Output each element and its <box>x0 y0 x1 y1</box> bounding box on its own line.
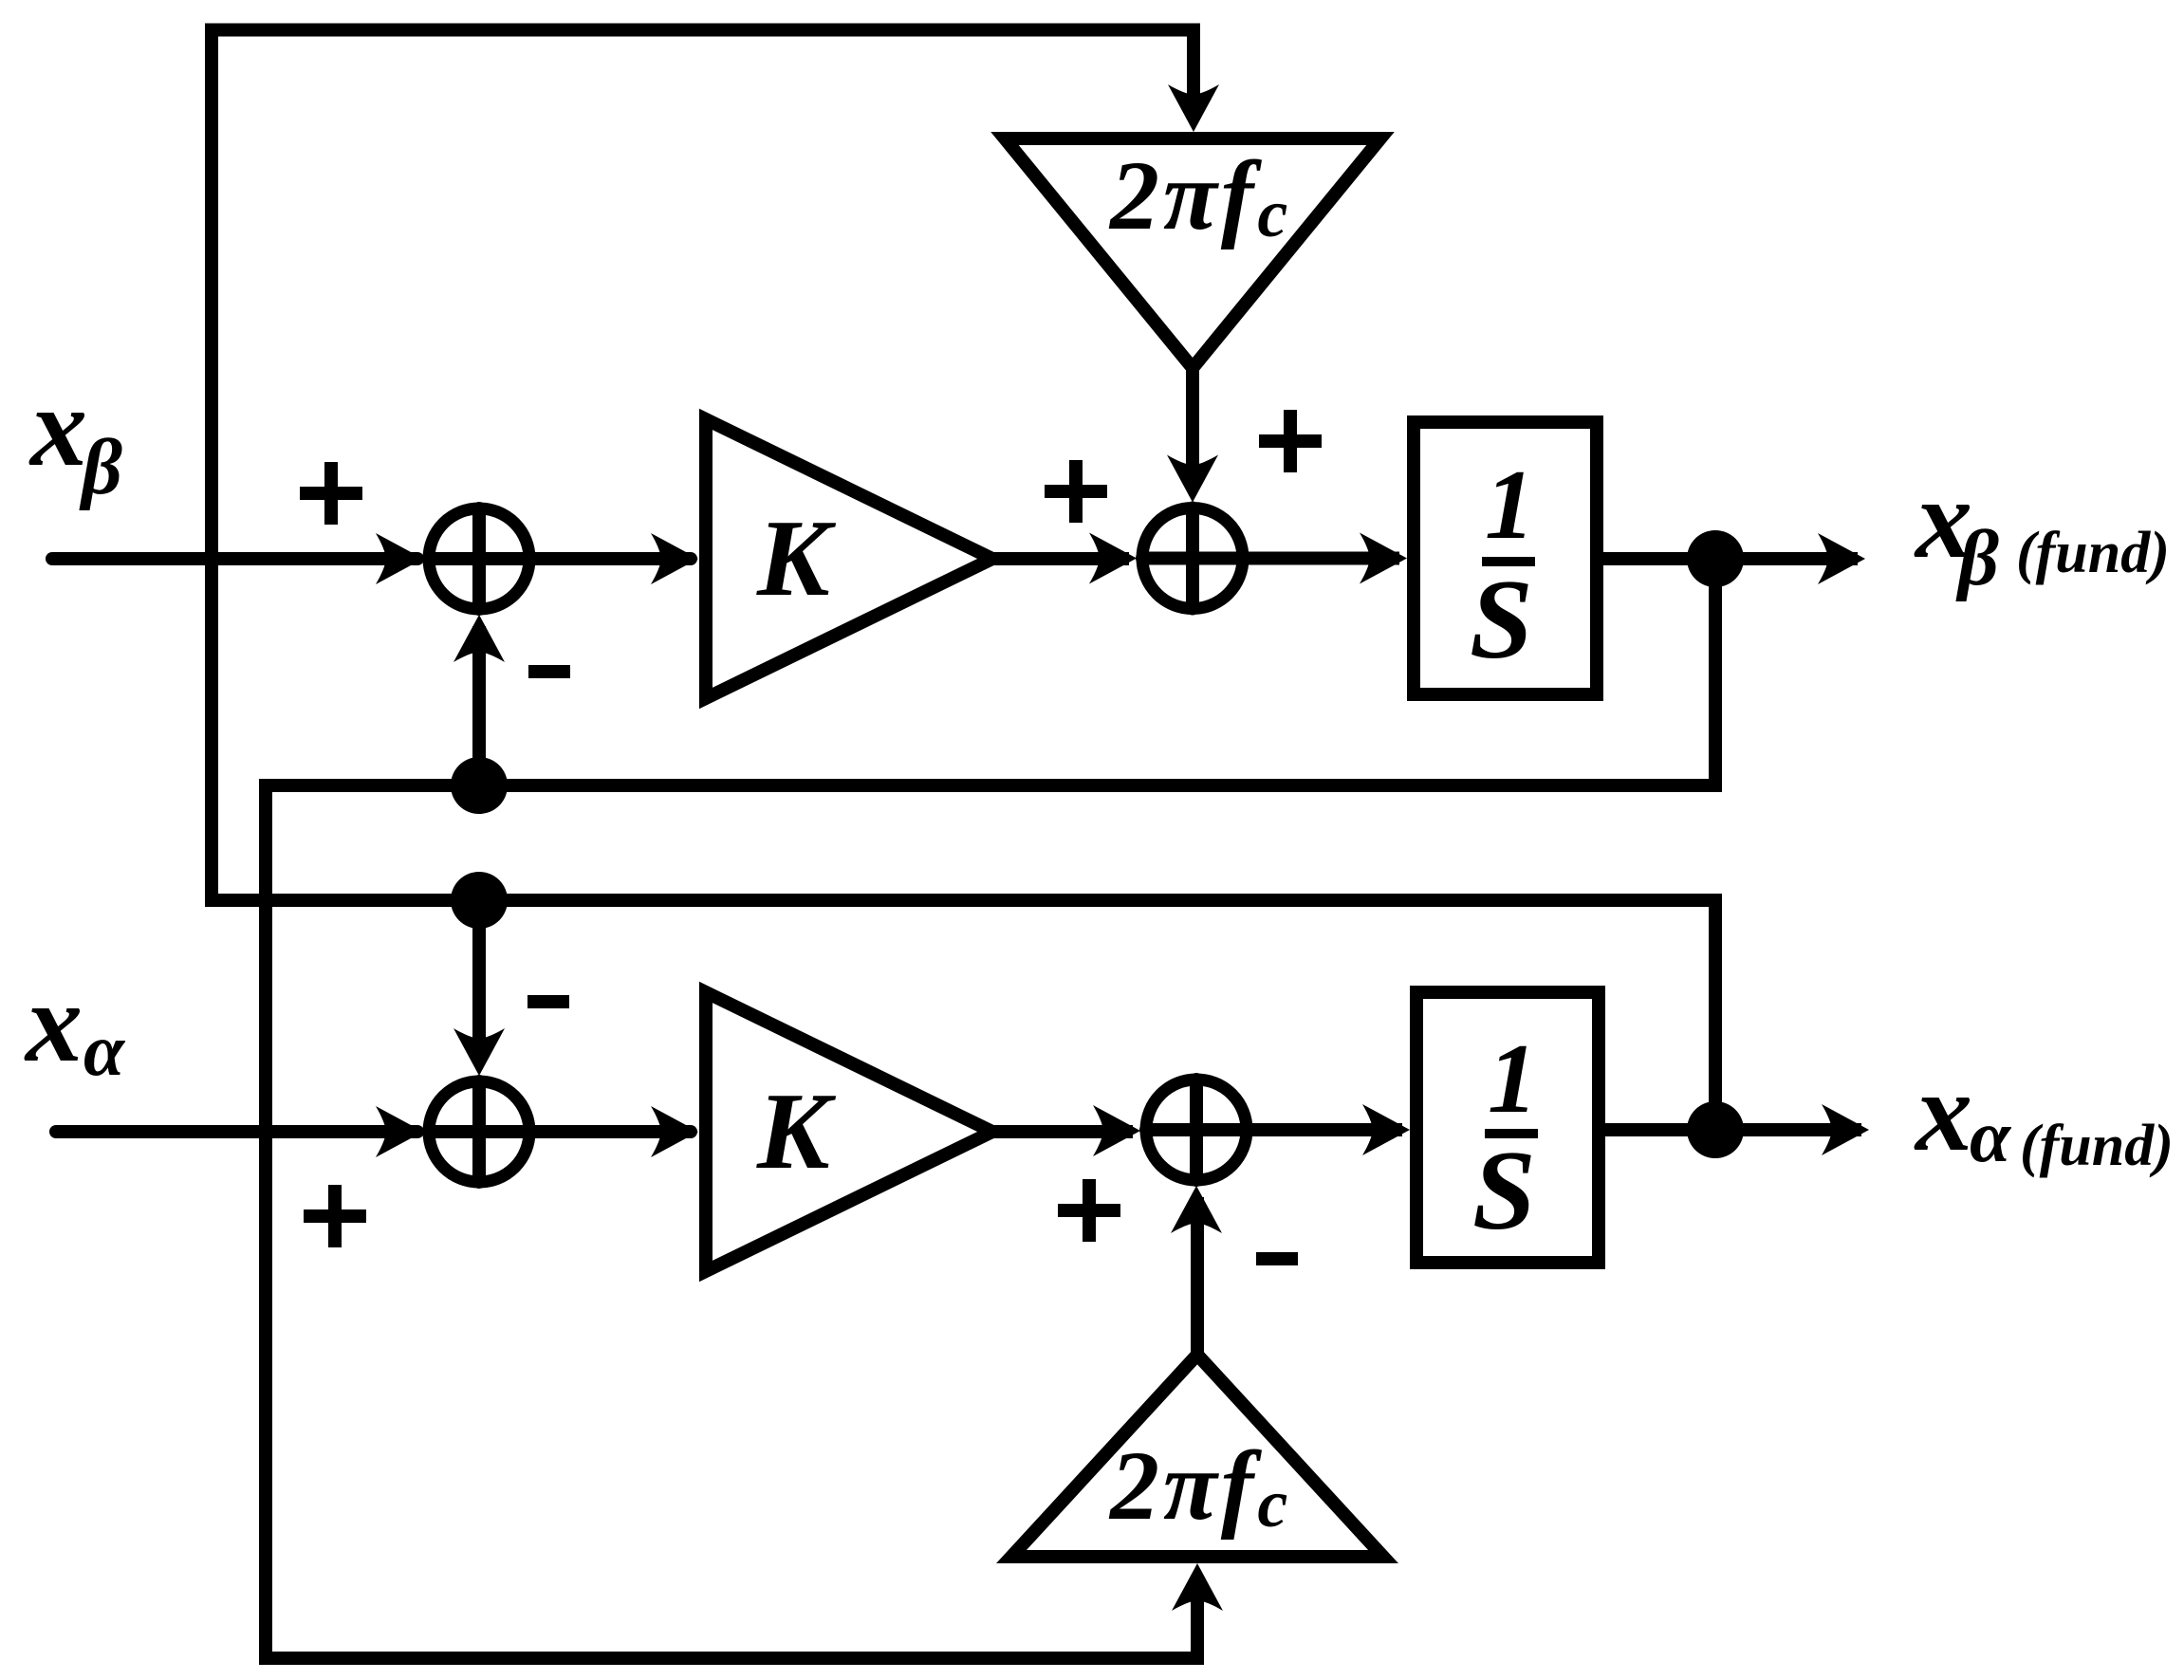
wire: x_alpha input line <box>56 1125 417 1138</box>
sign plus sum2 left <box>1045 460 1107 523</box>
arrowhead into sum3 <box>376 1106 423 1157</box>
svg-text:K: K <box>756 1071 837 1191</box>
wire: bottom triangle apex to sum4 <box>1191 1197 1204 1355</box>
summing junction sum1 <box>429 508 529 609</box>
label x_alpha input <box>24 959 126 1091</box>
arrowhead beta output <box>1818 533 1865 584</box>
sign minus sum4 <box>1256 1252 1298 1265</box>
svg-text:S: S <box>1472 1127 1536 1253</box>
svg-text:x: x <box>24 959 83 1085</box>
sign minus sum1 <box>528 665 570 678</box>
arrowhead top wire into top triangle <box>1168 84 1219 132</box>
wire: node B1 down to sum3 <box>472 900 486 1061</box>
svg-text:x: x <box>1914 1048 1972 1174</box>
svg-text:(fund): (fund) <box>2016 521 2170 585</box>
arrowhead down into sum3 top <box>453 1028 505 1076</box>
label x_alpha(fund) output <box>1914 1048 2174 1178</box>
node dot A1 (beta feedback to sum1) <box>451 757 508 814</box>
node dot alpha output <box>1687 1101 1744 1158</box>
wire: sum4 to integrator box 2 <box>1252 1123 1402 1136</box>
wire: sum1 minus input from node A1 <box>472 626 486 785</box>
gain triangle 2pi-fc bottom (upward) <box>1011 1355 1383 1557</box>
summing junction sum4 <box>1146 1080 1247 1180</box>
summing junction sum3 <box>429 1081 529 1182</box>
label x_beta(fund) output <box>1914 455 2170 602</box>
svg-text:(fund): (fund) <box>2020 1114 2174 1178</box>
gain triangle K1 <box>706 419 992 698</box>
wire: alpha-fund feedback: top wire, left vertical, line B, down to alpha node <box>212 30 1715 1131</box>
arrowhead into box2 <box>1362 1104 1410 1155</box>
label 1/S box2 <box>1472 1023 1538 1253</box>
label 1/S box1 <box>1470 449 1535 682</box>
wire: sum3 to K2 <box>529 1125 691 1138</box>
arrowhead into sum1 <box>376 533 423 584</box>
sign plus sum2 top <box>1259 410 1322 472</box>
sign plus sum4 <box>1058 1179 1120 1242</box>
svg-text:K: K <box>756 498 837 618</box>
arrowhead into K1 <box>651 533 698 584</box>
svg-text:β: β <box>79 423 122 511</box>
arrowhead into sum4 left <box>1093 1105 1140 1156</box>
wire: top triangle apex to sum2 <box>1186 365 1199 470</box>
svg-text:α: α <box>1970 1095 2012 1177</box>
wire: K2 to sum4 <box>992 1125 1133 1138</box>
wire: box1 to beta output node <box>1597 552 1715 565</box>
wire: x_beta input line <box>52 552 417 565</box>
arrowhead into box1 <box>1360 533 1407 584</box>
integrator box 2 (1/S) <box>1416 992 1599 1263</box>
node dot B1 (alpha feedback to sum3) <box>451 872 508 929</box>
label x_beta input <box>28 363 122 511</box>
wire: sum2 to integrator box 1 <box>1243 552 1399 565</box>
sign plus sum1 <box>300 462 362 525</box>
svg-text:1: 1 <box>1485 449 1535 560</box>
arrowhead alpha output <box>1822 1104 1869 1155</box>
gain triangle 2pi-fc top (inverted) <box>1005 138 1380 368</box>
summing junction sum2 <box>1142 508 1243 609</box>
wire: sum1 to K1 <box>529 552 691 565</box>
svg-text:S: S <box>1470 556 1533 682</box>
wire: K1 to sum2 <box>992 552 1129 565</box>
arrowhead up into bottom triangle base <box>1172 1563 1223 1611</box>
gain triangle K2 <box>706 992 992 1271</box>
arrowhead up into sum1 bottom <box>453 615 505 662</box>
wire: beta output arrow line <box>1715 552 1858 565</box>
svg-text:α: α <box>83 1008 126 1091</box>
sign plus sum3 <box>304 1185 366 1247</box>
wire: beta-fund feedback: from beta node down, line A, left vertical, bottom wire, up to bottom triangle <box>266 559 1715 1658</box>
arrowhead top triangle into sum2 <box>1167 455 1218 503</box>
sign minus sum3 <box>527 995 569 1008</box>
arrowhead up into sum4 bottom <box>1171 1186 1222 1233</box>
svg-text:β: β <box>1955 514 1999 602</box>
arrowhead into K2 <box>651 1106 698 1157</box>
node dot beta output <box>1687 530 1744 587</box>
svg-text:1: 1 <box>1488 1023 1538 1134</box>
arrowhead into sum2 left <box>1089 533 1137 584</box>
wire: box2 to alpha output node <box>1599 1123 1715 1136</box>
integrator box 1 (1/S) <box>1414 422 1597 694</box>
svg-text:x: x <box>28 363 87 489</box>
wire: alpha output arrow line <box>1715 1123 1861 1136</box>
